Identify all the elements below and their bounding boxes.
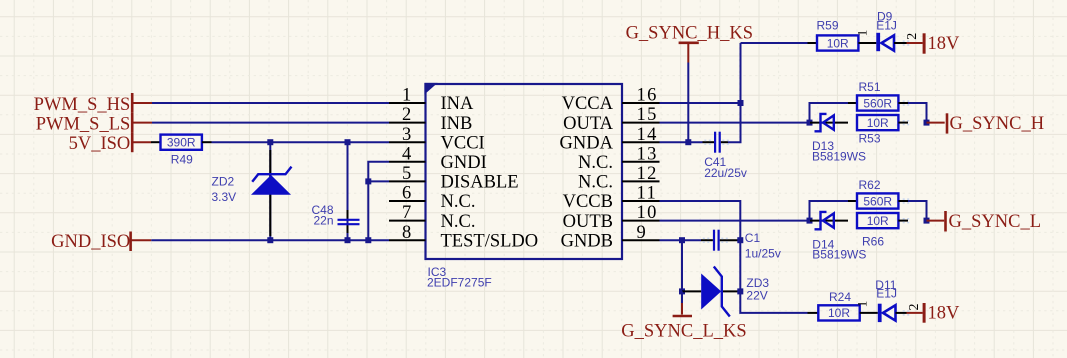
junction VCCA riser — [738, 100, 744, 106]
junction GND/pins45 — [365, 237, 371, 243]
wire VCCA to R59 — [741, 42, 808, 44]
wire PWM_S_HS to pin1 — [152, 102, 389, 104]
svg-text:22n: 22n — [313, 214, 333, 228]
port G_SYNC_H_KS — [626, 23, 753, 62]
pin 12 N.C. — [578, 164, 659, 193]
zener ZD3 22V — [682, 267, 769, 317]
pin 16 VCCA — [562, 86, 660, 115]
wire pin10 OUTB to D14 — [660, 220, 810, 222]
svg-text:18V: 18V — [928, 304, 961, 324]
svg-text:12: 12 — [637, 164, 658, 184]
svg-text:INA: INA — [441, 94, 475, 114]
svg-text:G_SYNC_L_KS: G_SYNC_L_KS — [621, 322, 746, 342]
wire GNDB down to ZD3 — [681, 240, 683, 291]
svg-text:6: 6 — [402, 184, 411, 204]
wire GND to pin5 DISABLE — [368, 180, 389, 182]
svg-text:C1: C1 — [745, 231, 761, 245]
wire GND_ISO rail — [151, 239, 389, 241]
port G_SYNC_L_KS — [621, 291, 746, 341]
svg-text:N.C.: N.C. — [441, 192, 476, 212]
svg-text:3.3V: 3.3V — [212, 190, 237, 204]
svg-text:R53: R53 — [859, 131, 881, 145]
pin 13 N.C. — [578, 144, 659, 173]
port G_SYNC_L — [927, 211, 1042, 232]
svg-text:13: 13 — [637, 144, 658, 164]
svg-text:N.C.: N.C. — [578, 173, 613, 193]
port PWM_S_HS — [34, 93, 152, 115]
svg-text:7: 7 — [402, 203, 411, 223]
wire GNDA to C41 — [660, 141, 703, 143]
pin 9 GNDB — [561, 223, 660, 252]
svg-text:PWM_S_LS: PWM_S_LS — [36, 115, 131, 135]
svg-text:8: 8 — [402, 223, 411, 243]
svg-text:R24: R24 — [829, 290, 851, 304]
svg-text:22u/25v: 22u/25v — [704, 166, 747, 180]
svg-text:R51: R51 — [859, 80, 881, 94]
junction GND/ZD2 — [267, 237, 273, 243]
svg-text:TEST/SLDO: TEST/SLDO — [441, 231, 539, 251]
wire GND to pin4 GNDI — [368, 162, 389, 240]
svg-text:OUTB: OUTB — [563, 212, 613, 232]
pin 4 GNDI — [389, 144, 487, 173]
junction GNDB left — [679, 237, 685, 243]
pin 10 OUTB — [563, 203, 660, 232]
svg-text:10: 10 — [637, 203, 658, 223]
svg-text:15: 15 — [637, 105, 658, 125]
capacitor C41 22u/25v — [703, 132, 747, 180]
svg-text:560R: 560R — [863, 96, 892, 110]
svg-text:560R: 560R — [863, 194, 892, 208]
pin 7 N.C. — [389, 203, 475, 232]
power port 18V bottom — [907, 303, 961, 324]
svg-text:16: 16 — [637, 86, 658, 106]
wire PWM_S_LS to pin2 — [152, 122, 389, 124]
diode D13 B5819WS (schottky) — [810, 114, 866, 164]
svg-text:18V: 18V — [928, 34, 961, 54]
svg-text:INB: INB — [441, 114, 473, 134]
svg-text:R66: R66 — [862, 235, 884, 249]
wire R51 to right riser — [908, 103, 927, 123]
wire R62 to right riser — [908, 201, 927, 221]
junction 5V/C48 — [345, 139, 351, 145]
junction OUTA right — [924, 120, 930, 126]
wire 5V rail down to ZD2 — [269, 142, 271, 240]
pin 1 INA — [389, 86, 474, 115]
svg-text:2EDF7275F: 2EDF7275F — [427, 276, 492, 290]
svg-text:R49: R49 — [171, 153, 193, 167]
resistor R51 560R — [848, 80, 908, 111]
wire riser to R51 branch — [810, 103, 849, 123]
junction OUTB left — [807, 218, 813, 224]
junction pin5 — [365, 178, 371, 184]
svg-text:B5819WS: B5819WS — [812, 248, 866, 262]
svg-text:2: 2 — [905, 33, 920, 40]
svg-text:3: 3 — [402, 125, 411, 145]
junction 5V/ZD2 — [267, 139, 273, 145]
junction OUTA left — [807, 120, 813, 126]
wire pin11 VCCB to vertical rail — [660, 201, 808, 313]
junction ZD3 right on VCCB rail — [737, 288, 743, 294]
svg-text:10R: 10R — [867, 214, 889, 228]
junction C1 right on VCCB rail — [737, 237, 743, 243]
op-amp IC3 2EDF7275F body — [424, 83, 622, 259]
pin 15 OUTA — [563, 105, 659, 134]
port GND_ISO — [51, 232, 151, 253]
wire pin16 VCCA to riser — [660, 102, 741, 104]
svg-text:22V: 22V — [746, 289, 767, 303]
svg-text:G_SYNC_L: G_SYNC_L — [949, 212, 1042, 232]
port 5V_ISO — [69, 132, 151, 154]
power port 18V top — [907, 33, 961, 54]
capacitor C48 22n — [311, 203, 359, 233]
diode D14 B5819WS (schottky) — [810, 212, 866, 262]
svg-text:10R: 10R — [828, 306, 850, 320]
wire VCCA riser up to R59 row and down to C41 — [728, 43, 741, 142]
pin 11 VCCB — [563, 184, 660, 213]
pin 3 VCCI — [389, 125, 485, 154]
svg-text:2: 2 — [907, 304, 922, 311]
svg-text:5V_ISO: 5V_ISO — [69, 134, 131, 154]
svg-text:4: 4 — [402, 144, 411, 164]
junction GNDA/KS — [685, 139, 691, 145]
wire G_SYNC_H_KS down to GNDA — [687, 63, 689, 143]
resistor R59 10R — [808, 19, 877, 51]
zener ZD2 3.3V — [212, 150, 292, 236]
svg-text:OUTA: OUTA — [563, 114, 614, 134]
svg-text:9: 9 — [637, 223, 648, 243]
svg-text:5: 5 — [402, 164, 411, 184]
svg-text:1: 1 — [855, 301, 870, 308]
resistor R49 390R — [151, 135, 212, 167]
svg-text:GNDB: GNDB — [561, 231, 613, 251]
wire pin9 GNDB to C1 — [660, 239, 702, 241]
svg-text:GND_ISO: GND_ISO — [51, 232, 130, 252]
svg-text:1u/25v: 1u/25v — [745, 247, 781, 261]
svg-text:10R: 10R — [867, 116, 889, 130]
svg-text:14: 14 — [637, 125, 658, 145]
resistor R53 10R — [857, 115, 908, 145]
wire 5V rail down to C48 — [347, 142, 349, 240]
svg-text:ZD2: ZD2 — [212, 175, 235, 189]
junction GND/C48 — [345, 237, 351, 243]
pin 6 N.C. — [389, 184, 475, 213]
resistor R66 10R — [857, 213, 908, 249]
decorative compile marks omitted from labeling — [903, 40, 905, 42]
svg-text:GNDA: GNDA — [560, 133, 614, 153]
svg-text:1: 1 — [855, 30, 870, 37]
svg-text:DISABLE: DISABLE — [441, 173, 519, 193]
svg-text:GNDI: GNDI — [441, 153, 487, 173]
svg-text:2: 2 — [402, 105, 411, 125]
svg-text:VCCA: VCCA — [562, 94, 614, 114]
resistor R24 10R — [808, 290, 878, 320]
svg-text:PWM_S_HS: PWM_S_HS — [34, 95, 131, 115]
svg-text:1: 1 — [402, 86, 411, 106]
diode D9 E1J — [876, 10, 906, 52]
svg-text:R59: R59 — [817, 19, 839, 33]
svg-text:VCCB: VCCB — [563, 192, 613, 212]
svg-text:E1J: E1J — [876, 286, 897, 300]
pin 14 GNDA — [560, 125, 660, 154]
port G_SYNC_H — [927, 113, 1045, 134]
wire R49 to pin3 VCCI — [212, 141, 390, 143]
svg-text:E1J: E1J — [876, 19, 897, 33]
pin 8 TEST/SLDO — [389, 223, 538, 252]
svg-text:VCCI: VCCI — [441, 133, 485, 153]
wire riser to R62 branch — [810, 201, 849, 221]
pin 2 INB — [389, 105, 472, 134]
port PWM_S_LS — [36, 113, 152, 135]
diode D11 E1J — [875, 278, 906, 322]
pin 5 DISABLE — [389, 164, 519, 193]
capacitor C1 1u/25v — [701, 230, 781, 261]
svg-text:N.C.: N.C. — [578, 153, 613, 173]
svg-text:10R: 10R — [827, 36, 849, 50]
junction OUTB right — [924, 218, 930, 224]
wire pin15 OUTA to D13 — [660, 122, 810, 124]
svg-text:G_SYNC_H_KS: G_SYNC_H_KS — [626, 23, 753, 43]
svg-text:390R: 390R — [167, 136, 196, 150]
junction ZD3 left — [679, 288, 685, 294]
svg-text:B5819WS: B5819WS — [812, 150, 866, 164]
resistor R62 560R — [848, 178, 908, 208]
svg-text:R62: R62 — [859, 178, 881, 192]
svg-text:11: 11 — [637, 184, 658, 204]
svg-text:G_SYNC_H: G_SYNC_H — [950, 114, 1045, 134]
svg-text:N.C.: N.C. — [441, 212, 476, 232]
